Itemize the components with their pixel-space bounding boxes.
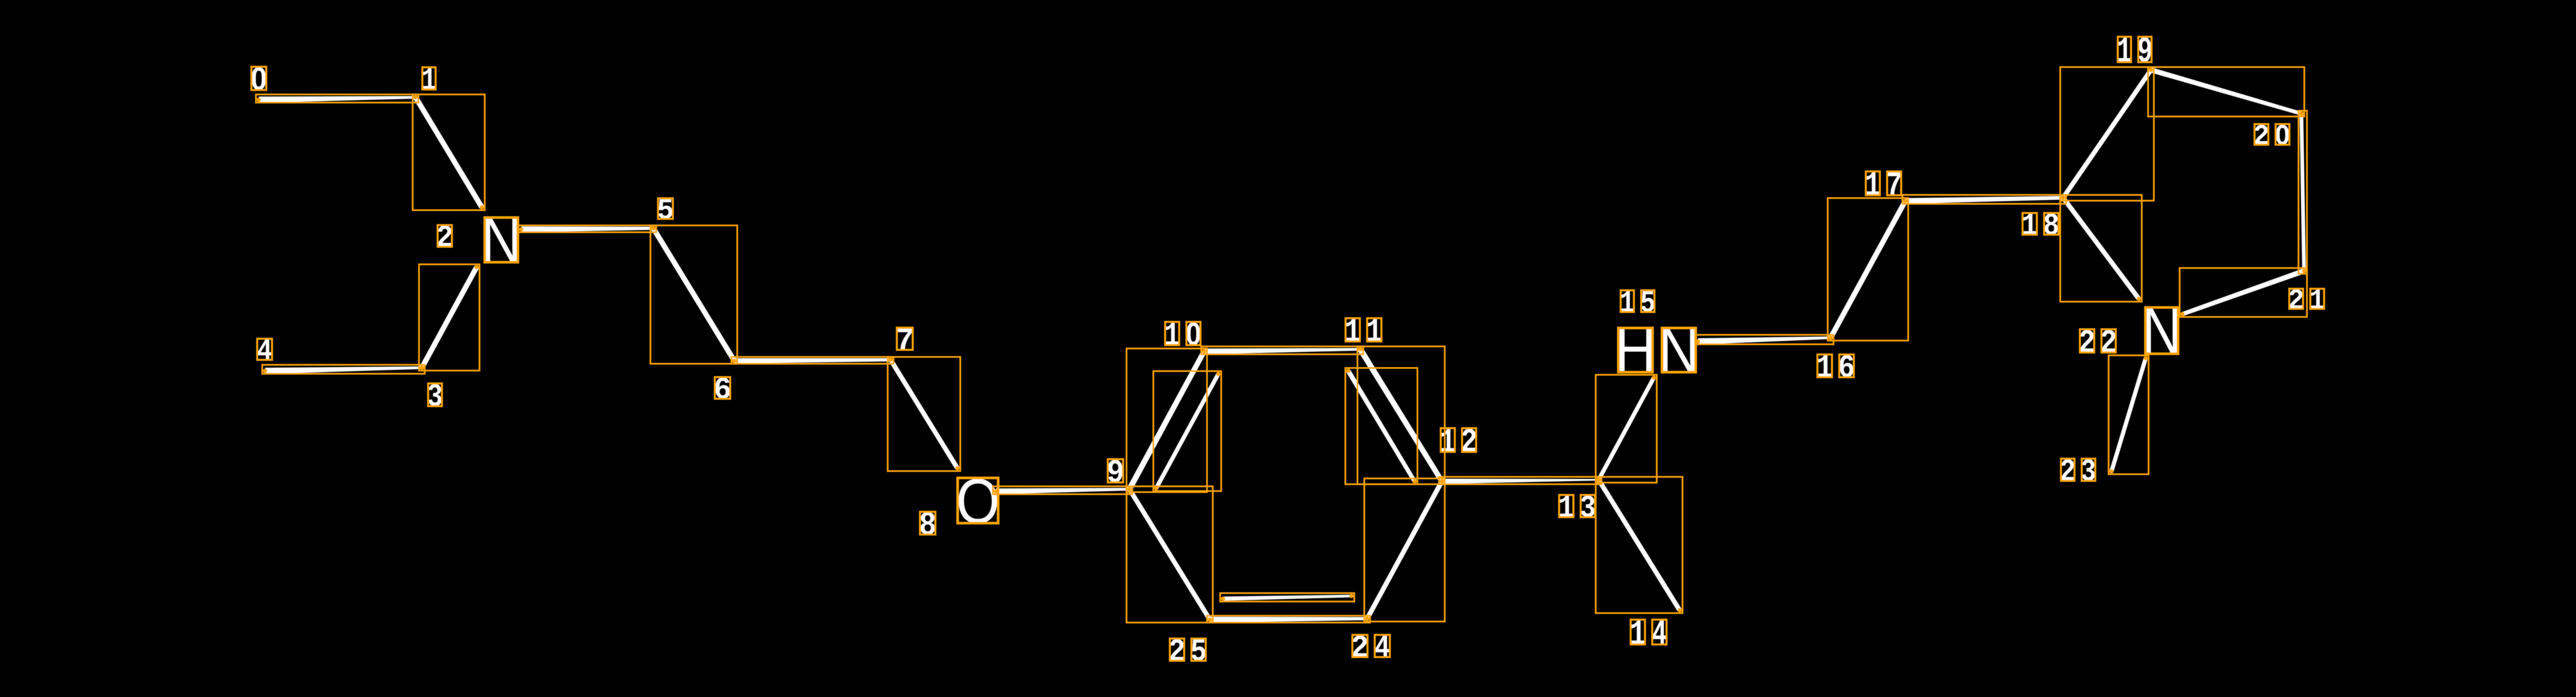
bond 18-22 bounding box [2060, 195, 2142, 302]
atom index label 14 digit box [1652, 620, 1666, 644]
svg-text:N: N [481, 204, 521, 277]
bond 2-3 line [420, 266, 479, 369]
bond 3-4 line [265, 367, 422, 375]
svg-text:2: 2 [1168, 634, 1185, 671]
bond 6-7 endpoint dots [732, 359, 736, 363]
atom index label 9 digit box [1108, 459, 1123, 482]
bond 19-20 line [2150, 67, 2302, 115]
bond 13-15 line [1597, 377, 1656, 481]
bond 5-6 line [651, 227, 737, 362]
bond 6-7 line [734, 358, 891, 363]
bond 20-21 endpoint dots [2299, 112, 2304, 116]
bond 7-8 bounding box [888, 357, 961, 471]
svg-text:7: 7 [895, 324, 914, 359]
svg-text:1: 1 [1816, 350, 1833, 387]
bond 11-12 inner endpoint dots [1346, 369, 1350, 373]
svg-text:2: 2 [2253, 120, 2269, 154]
bond 18-22 endpoint dots [2061, 196, 2065, 200]
bond 12-13 endpoint dots [1440, 479, 1444, 483]
atom index label 17 digit box [1887, 171, 1901, 195]
bond 19-20 bounding box [2148, 67, 2305, 117]
svg-text:1: 1 [1620, 286, 1635, 321]
svg-text:5: 5 [657, 194, 674, 227]
atom index label 1 digit box [422, 67, 436, 89]
bond 0-1 line [259, 96, 416, 103]
bond 2-5 endpoint dots [519, 227, 523, 231]
svg-text:6: 6 [1838, 350, 1855, 387]
atom index label 4 digit box [257, 339, 272, 360]
atom index label 2 digit box [438, 225, 452, 247]
bond 10-11 line [1204, 348, 1360, 355]
atom H15 letter bounding box [1619, 328, 1653, 372]
bond 22-23 endpoint dots [2144, 356, 2148, 360]
bond 21-22 endpoint dots [2302, 269, 2306, 273]
bond 17-18 line [1905, 196, 2063, 204]
atom index label 3 digit box [428, 383, 442, 406]
bond 8-9 line [996, 488, 1129, 494]
bond 16-17 endpoint dots [1829, 336, 1833, 340]
atom index label 21 digit box [2310, 289, 2324, 309]
atom index label 15 digit box [1641, 290, 1654, 312]
bond 25-24 endpoint dots [1208, 618, 1212, 622]
atom index label 25 digit box [1191, 639, 1206, 661]
bond 9-10 bounding box [1127, 349, 1207, 492]
bond 9-10 line [1127, 350, 1206, 491]
bond 25-24 inner line [1223, 595, 1351, 601]
bond 21-22 bounding box [2180, 268, 2307, 317]
atom index label 15 digit box [1621, 290, 1634, 312]
atom index label 24 digit box [1375, 635, 1390, 657]
bond 3-4 bounding box [262, 365, 425, 374]
atom index label 6 digit box [715, 377, 730, 399]
bond 0-1 endpoint dots [257, 98, 261, 102]
bond 18-19 line [2061, 69, 2153, 199]
bond 5-6 endpoint dots [651, 226, 655, 230]
bond 20-21 line [2300, 114, 2306, 271]
bond 1-2 endpoint dots [413, 95, 418, 99]
bond 16-17 bounding box [1828, 198, 1908, 341]
atom index label 19 digit box [2138, 37, 2151, 62]
bond 12-13 bounding box [1439, 477, 1602, 484]
bond 22-23 line [2109, 358, 2148, 472]
svg-text:6: 6 [713, 373, 731, 408]
atom index label 16 digit box [1817, 355, 1832, 377]
bond 13-14 line [1597, 479, 1682, 612]
svg-text:3: 3 [2081, 455, 2096, 491]
atom index label 22 digit box [2102, 329, 2116, 352]
bond 5-6 bounding box [651, 226, 738, 364]
atom index label 18 digit box [2044, 213, 2058, 235]
bond 11-12 inner bounding box [1346, 368, 1418, 484]
atom index label 24 digit box [1352, 635, 1368, 657]
atom N15 letter bounding box [1662, 328, 1696, 372]
bond 12-24 line [1365, 480, 1444, 620]
bond 10-11 bounding box [1201, 347, 1363, 355]
bond 13-15 endpoint dots [1597, 478, 1601, 482]
bond 2-3 bounding box [419, 265, 480, 371]
atom index label 11 digit box [1367, 318, 1381, 341]
bond 17-18 endpoint dots [1903, 199, 1907, 203]
svg-text:O: O [956, 466, 999, 537]
atom N22 letter bounding box [2146, 308, 2178, 354]
bond 13-15 bounding box [1596, 375, 1657, 483]
atom index label 5 digit box [658, 198, 673, 219]
bond 12-24 endpoint dots [1440, 479, 1444, 483]
bond 10-11 endpoint dots [1202, 349, 1206, 353]
bond 17-18 bounding box [1903, 195, 2066, 204]
bond 7-8 line [888, 359, 959, 470]
bond 9-10 endpoint dots [1127, 487, 1132, 491]
bond 15-16 bounding box [1695, 335, 1834, 345]
bond 2-3 endpoint dots [474, 265, 479, 269]
atom index label 12 digit box [1441, 428, 1455, 452]
atom N2 letter bounding box [485, 218, 518, 262]
bond 16-17 line [1829, 200, 1908, 339]
atom index label 19 digit box [2118, 37, 2131, 62]
svg-text:4: 4 [257, 335, 272, 369]
bond 25-24 line [1210, 617, 1367, 623]
svg-text:1: 1 [1630, 615, 1646, 655]
atom index label 0 digit box [251, 67, 266, 90]
bond 13-14 endpoint dots [1597, 478, 1601, 482]
bond 25-9 bounding box [1127, 487, 1213, 623]
bond 25-24 inner bounding box [1220, 593, 1355, 602]
bond 9-10 inner bounding box [1154, 371, 1221, 491]
bond 8-9 endpoint dots [994, 489, 998, 493]
bond 20-21 bounding box [2299, 111, 2307, 274]
atom index label 13 digit box [1581, 495, 1595, 517]
atom index label 10 digit box [1186, 322, 1200, 345]
bond 1-2 line [413, 96, 484, 208]
bond 11-12 bounding box [1358, 347, 1445, 484]
svg-text:1: 1 [1440, 424, 1456, 462]
bond 18-19 endpoint dots [2061, 196, 2065, 200]
atom index label 20 digit box [2276, 124, 2289, 145]
bond 11-12 line [1358, 348, 1444, 483]
svg-text:1: 1 [1164, 317, 1180, 355]
bond 9-10 inner endpoint dots [1154, 486, 1158, 490]
bond 18-19 bounding box [2060, 67, 2154, 201]
bond 2-5 bounding box [519, 226, 656, 233]
atom index label 23 digit box [2082, 459, 2095, 481]
bond 18-22 line [2061, 196, 2140, 300]
bond 7-8 endpoint dots [888, 358, 893, 362]
atom index label 13 digit box [1559, 495, 1573, 517]
atom index label 12 digit box [1462, 428, 1476, 452]
svg-text:5: 5 [1640, 286, 1655, 321]
bond 11-12 inner line [1346, 370, 1416, 482]
bond 9-10 inner line [1155, 373, 1220, 489]
bond 13-14 bounding box [1596, 477, 1683, 613]
bond 12-24 bounding box [1365, 479, 1445, 622]
bond 2-5 line [521, 227, 653, 233]
atom index label 7 digit box [897, 328, 913, 350]
svg-text:1: 1 [1865, 167, 1881, 205]
atom index label 8 digit box [920, 512, 935, 534]
atom index label 25 digit box [1170, 639, 1184, 661]
atom index label 17 digit box [1866, 171, 1880, 195]
bond 25-9 line [1127, 488, 1212, 621]
atom index label 10 digit box [1165, 322, 1179, 345]
atom index label 11 digit box [1346, 318, 1360, 341]
bond 8-9 bounding box [993, 487, 1133, 494]
svg-text:N: N [1658, 315, 1700, 386]
bond 25-9 endpoint dots [1208, 618, 1212, 622]
bond 19-20 endpoint dots [2149, 68, 2153, 72]
bond 25-24 bounding box [1207, 616, 1370, 623]
atom index label 14 digit box [1631, 620, 1645, 644]
atom index label 18 digit box [2023, 213, 2037, 235]
bond 22-23 bounding box [2109, 356, 2149, 474]
bond 11-12 endpoint dots [1358, 347, 1362, 351]
bond 15-16 endpoint dots [1696, 339, 1700, 344]
bond 12-13 line [1442, 479, 1599, 484]
bond 21-22 line [2182, 268, 2305, 316]
bond 3-4 endpoint dots [263, 369, 267, 373]
atom index label 21 digit box [2289, 289, 2303, 309]
bond 1-2 bounding box [413, 95, 485, 210]
svg-text:N: N [2141, 293, 2181, 368]
bond 6-7 bounding box [732, 357, 894, 364]
bond 0-1 bounding box [256, 95, 419, 103]
atom index label 22 digit box [2080, 329, 2094, 352]
bond 15-16 line [1698, 337, 1831, 345]
atom index label 23 digit box [2061, 459, 2075, 481]
atom O8 letter bounding box [958, 478, 998, 523]
atom index label 20 digit box [2255, 124, 2268, 145]
bond 25-24 inner endpoint dots [1221, 597, 1225, 601]
atom index label 16 digit box [1839, 355, 1854, 377]
